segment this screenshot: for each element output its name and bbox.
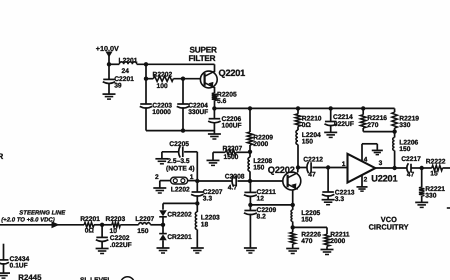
svg-text:1: 1 — [342, 161, 346, 168]
svg-text:150: 150 — [302, 139, 313, 146]
svg-text:4: 4 — [364, 156, 368, 163]
svg-text:3: 3 — [379, 160, 383, 167]
svg-text:R2201: R2201 — [80, 216, 100, 223]
svg-text:39: 39 — [114, 82, 122, 89]
svg-text:2000: 2000 — [253, 141, 268, 148]
svg-text:4.7: 4.7 — [228, 185, 238, 192]
svg-text:150: 150 — [137, 228, 148, 235]
svg-text:+10.0V: +10.0V — [96, 44, 119, 53]
svg-text:470: 470 — [301, 238, 312, 245]
svg-text:2: 2 — [364, 177, 368, 184]
svg-text:(+2.0 TO +8.0 VDC): (+2.0 TO +8.0 VDC) — [1, 216, 55, 223]
svg-text:0.1UF: 0.1UF — [10, 263, 28, 270]
svg-text:R2207: R2207 — [223, 145, 243, 152]
svg-text:2: 2 — [155, 174, 159, 181]
svg-text:10: 10 — [110, 228, 118, 235]
svg-text:15: 15 — [430, 170, 438, 177]
svg-text:.022UF: .022UF — [110, 242, 132, 249]
svg-text:U2201: U2201 — [371, 173, 397, 183]
svg-text:CR2202: CR2202 — [167, 211, 192, 218]
svg-text:L2201: L2201 — [119, 57, 138, 64]
svg-text:C2205: C2205 — [169, 141, 189, 148]
svg-text:Q2202: Q2202 — [268, 165, 295, 175]
svg-text:2.5–3.5: 2.5–3.5 — [167, 158, 190, 165]
svg-text:150: 150 — [253, 165, 264, 172]
svg-text:47: 47 — [308, 172, 316, 179]
svg-text:C2217: C2217 — [401, 156, 421, 163]
svg-text:R2445: R2445 — [18, 273, 42, 280]
svg-text:100: 100 — [157, 83, 168, 90]
svg-text:10000: 10000 — [152, 109, 171, 116]
svg-text:R2203: R2203 — [106, 216, 126, 223]
svg-text:C2212: C2212 — [303, 157, 323, 164]
svg-text:150: 150 — [399, 146, 410, 153]
svg-text:5.6: 5.6 — [217, 98, 227, 105]
svg-text:STEERING LINE: STEERING LINE — [19, 210, 66, 217]
svg-text:24: 24 — [122, 68, 130, 75]
svg-text:330UF: 330UF — [188, 109, 208, 116]
svg-text:330: 330 — [399, 122, 410, 129]
svg-text:CR2201: CR2201 — [167, 234, 192, 241]
svg-text:R: R — [0, 152, 4, 161]
svg-text:1: 1 — [190, 174, 194, 181]
svg-text:R2222: R2222 — [426, 158, 446, 165]
svg-text:L2207: L2207 — [135, 216, 154, 223]
svg-text:2000: 2000 — [330, 238, 345, 245]
svg-text:330: 330 — [425, 193, 436, 200]
svg-text:(NOTE 4): (NOTE 4) — [166, 165, 195, 172]
svg-text:270: 270 — [367, 122, 378, 129]
svg-text:18: 18 — [201, 221, 209, 228]
svg-text:L2202: L2202 — [171, 186, 190, 193]
svg-text:100UF: 100UF — [222, 122, 242, 129]
svg-text:150: 150 — [301, 216, 312, 223]
svg-text:.022UF: .022UF — [332, 121, 354, 128]
svg-text:12: 12 — [257, 196, 265, 203]
svg-text:FILTER: FILTER — [189, 54, 216, 63]
svg-text:47: 47 — [407, 171, 415, 178]
svg-text:R2202: R2202 — [153, 71, 173, 78]
svg-text:8.2: 8.2 — [257, 214, 267, 221]
svg-text:3.3: 3.3 — [203, 196, 213, 203]
svg-text:CIRCUITRY: CIRCUITRY — [369, 222, 409, 231]
svg-text:3.3: 3.3 — [335, 196, 345, 203]
svg-text:Q2201: Q2201 — [219, 68, 246, 78]
svg-text:C2208: C2208 — [225, 174, 245, 181]
svg-text:0Ω: 0Ω — [302, 122, 312, 129]
svg-text:1500: 1500 — [224, 154, 239, 161]
svg-text:0Ω: 0Ω — [85, 228, 95, 235]
